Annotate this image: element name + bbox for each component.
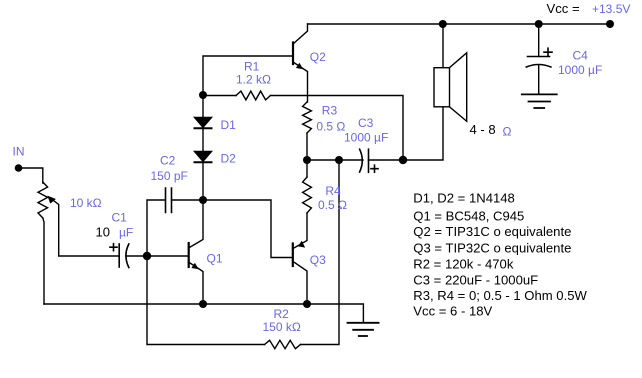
svg-text:D1, D2 = 1N4148: D1, D2 = 1N4148 <box>413 190 515 205</box>
wire output node to C3 left plate <box>307 159 363 161</box>
wire R2 left to Q1 base node vertical <box>147 256 265 345</box>
capacitor C1 10uF straight plate <box>118 244 120 267</box>
node output R3/R4 <box>303 156 311 164</box>
wire Q1 collector node to Q3 base <box>203 200 293 258</box>
svg-text:R2 = 120k - 470k: R2 = 120k - 470k <box>413 256 514 271</box>
potentiometer 10k zigzag body <box>38 182 48 218</box>
svg-text:Q3 = TIP32C o equivalente: Q3 = TIP32C o equivalente <box>413 240 571 255</box>
svg-text:Q2 = TIP31C o equivalente: Q2 = TIP31C o equivalente <box>413 224 571 239</box>
wire C4 bottom lead to ground <box>538 65 540 94</box>
transistor Q1 base bar <box>188 243 190 267</box>
wire speaker return node to speaker <box>403 107 443 160</box>
C4 polarity plus <box>544 48 552 56</box>
svg-text:D2: D2 <box>221 152 237 166</box>
svg-text:C3: C3 <box>358 116 374 130</box>
speaker 4-8 ohm <box>434 68 450 107</box>
node Q1 base/C1/R2 <box>143 252 151 260</box>
node bias top (Q2 base/R1/D1) <box>199 91 207 99</box>
wire Q2 base to bias node <box>203 56 293 95</box>
svg-text:C1: C1 <box>112 210 128 224</box>
svg-text:C3 = 220uF - 1000uF: C3 = 220uF - 1000uF <box>413 272 538 287</box>
svg-text:10: 10 <box>96 225 110 240</box>
svg-text:D1: D1 <box>221 118 237 132</box>
capacitor C4 straight plate <box>528 56 550 58</box>
capacitor C3 curved plate <box>360 149 363 172</box>
node Vcc terminal <box>606 20 614 28</box>
svg-text:0.5 Ω: 0.5 Ω <box>318 198 347 212</box>
svg-text:1000 µF: 1000 µF <box>344 130 388 144</box>
diode D1 <box>195 118 212 128</box>
resistor R1 1.2k zigzag <box>236 91 271 100</box>
wire ground line (pot - Q1 emitter - Q3 collector - ground) <box>44 304 363 323</box>
wire C4 top lead <box>538 24 540 57</box>
wire D1 cathode to D2 anode <box>202 129 204 152</box>
wire pot wiper to C1 <box>50 198 120 257</box>
wire D2 cathode to Q1 collector node <box>202 163 204 201</box>
resistor R2 zigzag <box>265 340 301 348</box>
input terminal IN <box>15 164 23 172</box>
wire Q2 emitter down to R3 <box>293 62 308 102</box>
Q2 emitter arrow <box>296 63 303 69</box>
node Q3 collector/ground line <box>303 300 311 308</box>
wire Q1 base <box>147 255 189 257</box>
svg-text:R2: R2 <box>274 307 290 321</box>
wire pot bottom to ground line <box>43 218 44 304</box>
transistor Q3 base bar <box>292 244 294 267</box>
svg-text:Q1 = BC548, C945: Q1 = BC548, C945 <box>413 208 524 223</box>
svg-text:+13.5V: +13.5V <box>592 2 630 16</box>
wire Q2 collector to rail <box>293 24 308 44</box>
resistor R3 zigzag <box>303 102 312 133</box>
wire output node to R4 top <box>306 160 308 177</box>
C1 polarity plus <box>110 244 117 251</box>
svg-text:1.2 kΩ: 1.2 kΩ <box>236 73 271 87</box>
node C4/Vcc <box>535 20 543 28</box>
diode D2 <box>195 152 212 162</box>
ground at C4 <box>522 93 557 95</box>
svg-text:4 - 8: 4 - 8 <box>470 122 496 137</box>
wire speaker top to Vcc rail <box>442 24 444 68</box>
svg-text:1000 µF: 1000 µF <box>558 63 602 77</box>
C3 polarity plus <box>371 165 378 172</box>
svg-text:R1: R1 <box>244 59 260 73</box>
svg-text:Ω: Ω <box>503 124 512 138</box>
svg-text:Q2: Q2 <box>310 50 326 64</box>
wire feedback tap down to R2 right <box>301 160 340 345</box>
node feedback tap <box>335 156 343 164</box>
Q1 emitter arrow <box>191 263 198 270</box>
svg-text:Vcc =: Vcc = <box>547 1 580 16</box>
wire R1 right end across to output coupling node <box>271 96 404 161</box>
wire Q1 collector <box>189 200 204 248</box>
wire C3 right plate to speaker return node <box>369 159 404 161</box>
wire D1 anode <box>202 95 204 118</box>
wire Vcc top rail <box>308 23 611 25</box>
svg-text:R4: R4 <box>325 184 341 198</box>
resistor R4 zigzag <box>303 177 312 213</box>
svg-text:µF: µF <box>119 226 133 240</box>
ground main <box>348 322 379 324</box>
svg-text:C4: C4 <box>573 48 589 62</box>
svg-text:R3, R4 = 0; 0.5 - 1 Ohm 0.5W: R3, R4 = 0; 0.5 - 1 Ohm 0.5W <box>413 288 587 303</box>
transistor Q2 base bar <box>292 43 294 65</box>
wire R3 bottom to output node <box>306 133 308 160</box>
capacitor C4 curved plate <box>526 65 551 68</box>
svg-text:R3: R3 <box>322 103 338 117</box>
wire Q3 collector down to ground line <box>293 262 307 305</box>
capacitor C3 straight plate <box>368 149 370 172</box>
node Q1 collector/D2/C2 <box>199 196 207 204</box>
Q3 emitter arrow (PNP, points to bar) <box>298 241 305 248</box>
potentiometer wiper arrow <box>47 196 56 204</box>
svg-text:150 kΩ: 150 kΩ <box>263 320 301 334</box>
wire C1 right plate to Q1 base node <box>126 255 147 257</box>
svg-text:10 kΩ: 10 kΩ <box>70 196 102 210</box>
svg-text:Q1: Q1 <box>207 252 223 266</box>
wire C2 right plate to node <box>172 199 204 201</box>
wire C2 left plate to Q1 base line <box>147 200 166 256</box>
svg-text:0.5 Ω: 0.5 Ω <box>316 120 345 134</box>
wire R4 bottom to Q3 emitter <box>293 213 307 249</box>
node C3/speaker return <box>399 156 407 164</box>
svg-text:Vcc = 6 - 18V: Vcc = 6 - 18V <box>413 304 492 319</box>
wire Q1 emitter down to ground line <box>189 262 204 304</box>
wire input terminal to pot top <box>19 168 43 183</box>
wire bias node to R1 left <box>203 95 236 97</box>
svg-text:150 pF: 150 pF <box>151 169 188 183</box>
svg-text:C2: C2 <box>160 153 176 167</box>
node speaker/Vcc <box>439 20 447 28</box>
capacitor C2 150pF plates <box>166 188 172 213</box>
node notes text block <box>413 190 587 318</box>
node Q1 emitter/ground line <box>199 300 207 308</box>
capacitor C1 curved plate <box>126 244 129 268</box>
svg-text:Q3: Q3 <box>310 253 326 267</box>
svg-text:IN: IN <box>13 145 25 159</box>
